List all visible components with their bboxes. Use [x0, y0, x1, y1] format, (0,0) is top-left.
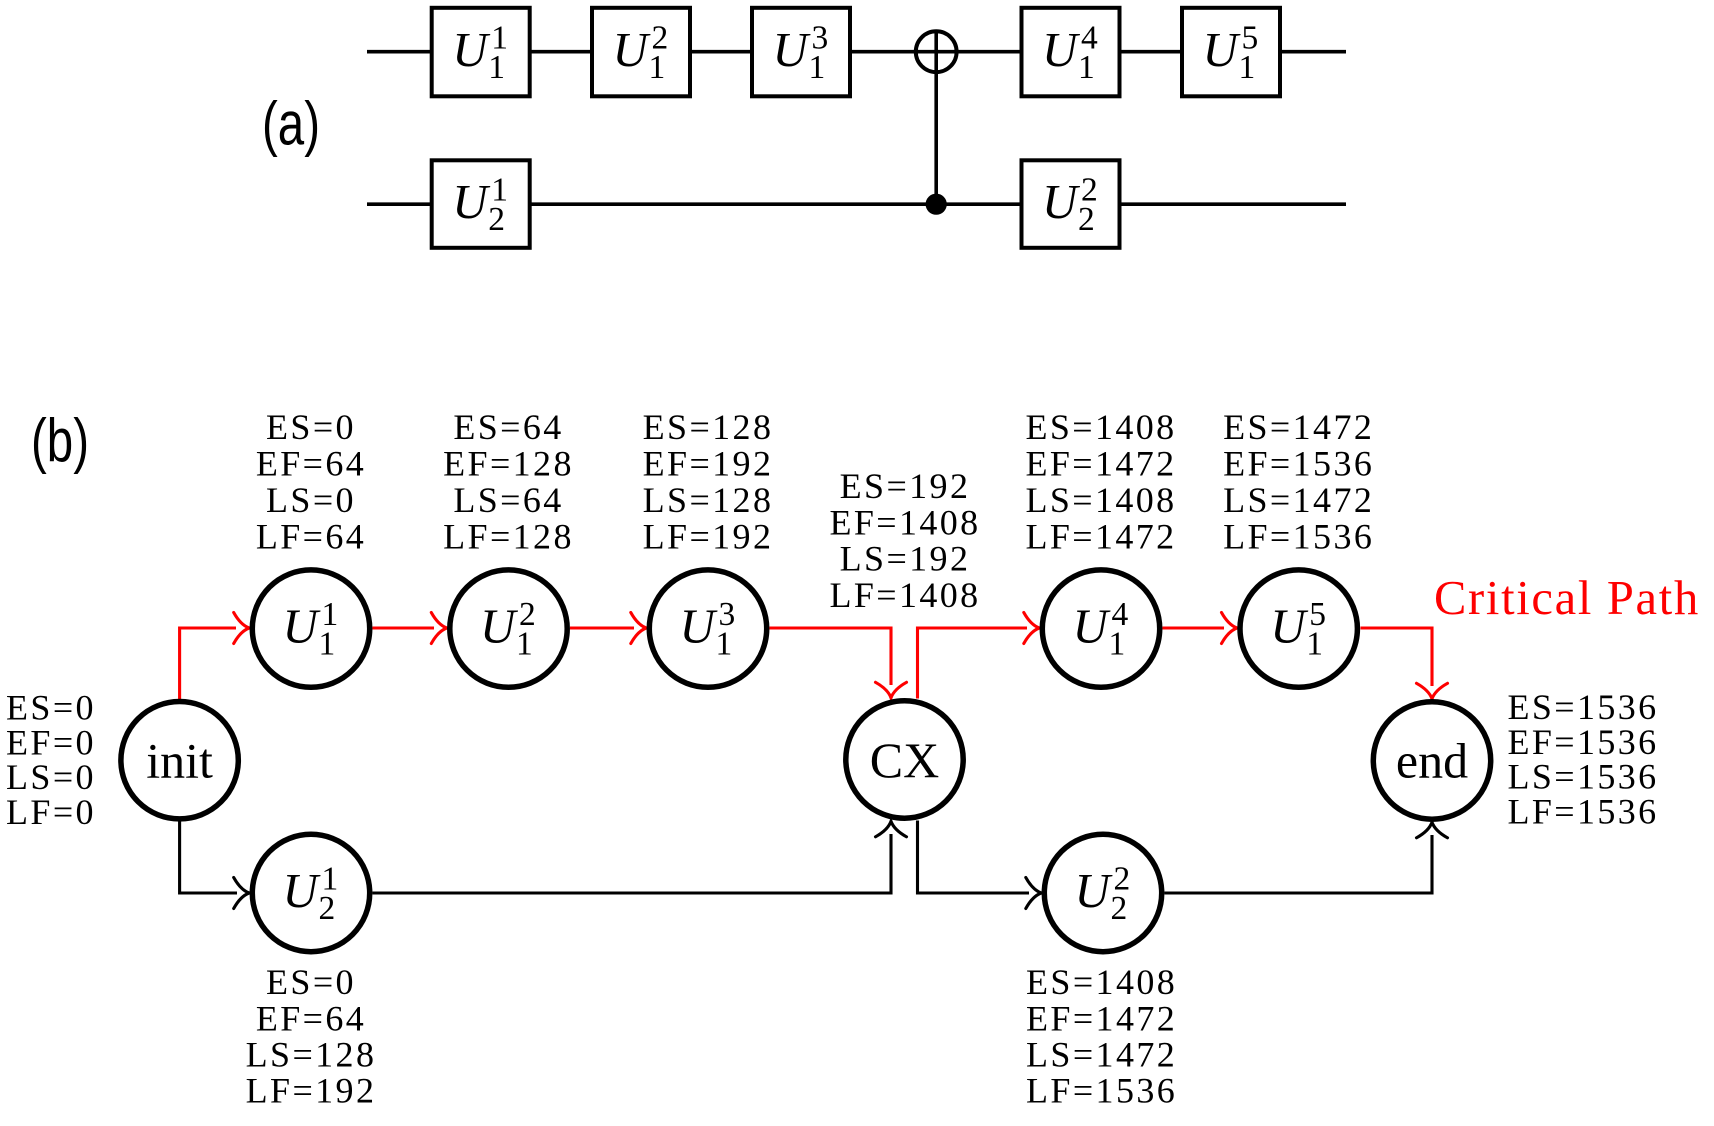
- edge init->U11 (critical, red): [180, 613, 250, 700]
- svg-text:1: 1: [716, 626, 733, 663]
- gate U_2^2 (a7): [1022, 160, 1120, 248]
- svg-text:U: U: [452, 22, 491, 77]
- svg-text:EF=64: EF=64: [256, 443, 366, 483]
- node init ES/EF/LS/LF labels: [6, 688, 96, 832]
- svg-text:U: U: [1042, 174, 1081, 229]
- svg-text:U: U: [283, 599, 322, 654]
- svg-text:2: 2: [1111, 890, 1128, 927]
- svg-text:2: 2: [1078, 201, 1095, 238]
- svg-text:1: 1: [516, 626, 533, 663]
- svg-text:U: U: [773, 22, 812, 77]
- svg-text:(b): (b): [31, 407, 89, 475]
- svg-text:Critical Path: Critical Path: [1434, 572, 1700, 625]
- node end ES/EF/LS/LF labels: [1507, 687, 1658, 831]
- node U22 ES/EF/LS/LF labels: [1026, 962, 1177, 1111]
- svg-text:ES=1472: ES=1472: [1223, 407, 1374, 447]
- edge U13->CX (critical, red): [770, 628, 907, 698]
- svg-text:EF=128: EF=128: [443, 443, 574, 483]
- svg-text:U: U: [1203, 22, 1242, 77]
- svg-text:LF=1536: LF=1536: [1507, 791, 1658, 831]
- gate U_1^4 (a4): [1022, 8, 1120, 97]
- svg-text:U: U: [480, 599, 519, 654]
- svg-text:LF=1408: LF=1408: [829, 575, 980, 615]
- svg-text:ES=192: ES=192: [840, 466, 971, 506]
- svg-text:LF=1536: LF=1536: [1026, 1071, 1177, 1111]
- edge init->U21 (black): [180, 822, 250, 909]
- svg-text:init: init: [146, 732, 213, 788]
- node U12: [450, 570, 567, 687]
- gate U_1^2 (a2): [592, 8, 690, 97]
- edge U15->end (critical, red): [1361, 628, 1448, 699]
- edge U11->U12 (critical, red): [373, 613, 447, 644]
- gate U_1^3 (a3): [752, 8, 850, 97]
- node CX: [846, 701, 963, 818]
- edge CX->U22 (black): [918, 821, 1042, 909]
- svg-text:LS=1472: LS=1472: [1223, 480, 1374, 520]
- node U13 ES/EF/LS/LF labels: [643, 407, 774, 557]
- svg-text:2: 2: [319, 890, 336, 927]
- svg-text:LS=64: LS=64: [453, 480, 563, 520]
- svg-text:1: 1: [1239, 49, 1256, 86]
- edge U21->CX (black): [373, 821, 907, 893]
- svg-text:1: 1: [649, 49, 666, 86]
- edge U12->U13 (critical, red): [570, 613, 646, 644]
- svg-text:1: 1: [1078, 49, 1095, 86]
- svg-text:LS=128: LS=128: [643, 480, 774, 520]
- node U15: [1240, 570, 1357, 687]
- svg-text:LF=192: LF=192: [643, 517, 774, 557]
- edge U14->U15 (critical, red): [1163, 613, 1238, 644]
- svg-text:U: U: [1073, 599, 1112, 654]
- node U12 ES/EF/LS/LF labels: [443, 407, 574, 557]
- svg-text:LF=1472: LF=1472: [1025, 517, 1176, 557]
- svg-text:1: 1: [809, 49, 826, 86]
- svg-text:EF=1472: EF=1472: [1026, 998, 1177, 1038]
- svg-text:LS=0: LS=0: [266, 480, 356, 520]
- svg-text:ES=128: ES=128: [643, 407, 774, 447]
- svg-text:ES=1408: ES=1408: [1025, 407, 1176, 447]
- svg-text:U: U: [1042, 22, 1081, 77]
- svg-text:1: 1: [1306, 626, 1323, 663]
- node U11 ES/EF/LS/LF labels: [256, 407, 366, 557]
- CNOT control line: [934, 31, 938, 204]
- node U13: [649, 570, 766, 687]
- node U14 ES/EF/LS/LF labels: [1025, 407, 1176, 557]
- qubit wire q2: [367, 202, 1346, 206]
- svg-text:U: U: [452, 174, 491, 229]
- node CX ES/EF/LS/LF labels: [829, 466, 980, 615]
- CNOT control dot: [926, 194, 947, 215]
- svg-text:U: U: [283, 863, 322, 918]
- qubit wire q1: [367, 50, 1346, 54]
- svg-text:LF=1536: LF=1536: [1223, 517, 1374, 557]
- svg-text:U: U: [680, 599, 719, 654]
- svg-text:1: 1: [1109, 626, 1126, 663]
- svg-text:LF=192: LF=192: [246, 1071, 377, 1111]
- svg-text:end: end: [1396, 733, 1468, 789]
- node U11: [252, 570, 369, 687]
- svg-text:LS=128: LS=128: [246, 1035, 377, 1075]
- svg-text:1: 1: [319, 626, 336, 663]
- svg-text:EF=1408: EF=1408: [829, 502, 980, 542]
- svg-text:EF=64: EF=64: [256, 998, 366, 1038]
- svg-text:LS=1472: LS=1472: [1026, 1035, 1177, 1075]
- svg-text:U: U: [1270, 599, 1309, 654]
- svg-text:2: 2: [488, 201, 505, 238]
- svg-text:LF=0: LF=0: [6, 792, 96, 832]
- svg-text:ES=1408: ES=1408: [1026, 962, 1177, 1002]
- node U14: [1042, 570, 1159, 687]
- svg-text:ES=0: ES=0: [266, 962, 356, 1002]
- edge U22->end (black): [1165, 822, 1448, 893]
- svg-text:EF=192: EF=192: [643, 443, 774, 483]
- svg-text:LS=192: LS=192: [840, 539, 971, 579]
- edge CX->U14 (critical, red): [918, 613, 1040, 699]
- svg-text:LF=128: LF=128: [443, 517, 574, 557]
- node U21 ES/EF/LS/LF labels: [246, 962, 377, 1111]
- node U22: [1044, 834, 1161, 951]
- svg-text:ES=0: ES=0: [266, 407, 356, 447]
- gate U_1^5 (a5): [1182, 8, 1280, 97]
- svg-text:U: U: [1075, 863, 1114, 918]
- gate U_1^1 (a1): [432, 8, 530, 97]
- svg-text:(a): (a): [262, 90, 320, 158]
- svg-text:EF=1536: EF=1536: [1223, 443, 1374, 483]
- node end: [1373, 702, 1490, 819]
- CNOT target: [916, 31, 957, 72]
- svg-text:ES=64: ES=64: [453, 407, 563, 447]
- node init: [121, 702, 238, 819]
- svg-text:LF=64: LF=64: [256, 517, 366, 557]
- node U21: [252, 834, 369, 951]
- svg-text:U: U: [613, 22, 652, 77]
- gate U_2^1 (a6): [432, 160, 530, 248]
- svg-text:1: 1: [488, 49, 505, 86]
- svg-text:CX: CX: [870, 732, 939, 788]
- svg-text:EF=1472: EF=1472: [1025, 443, 1176, 483]
- node U15 ES/EF/LS/LF labels: [1223, 407, 1374, 557]
- svg-text:LS=1408: LS=1408: [1025, 480, 1176, 520]
